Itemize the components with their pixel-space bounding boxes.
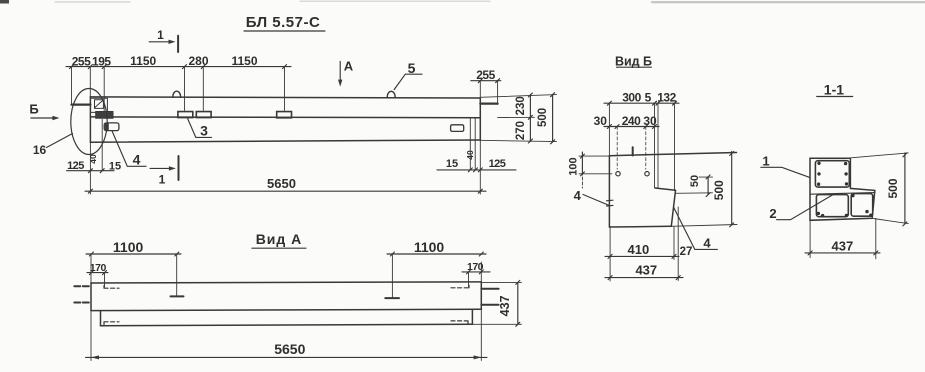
label 5 — [394, 60, 422, 90]
svg-text:30: 30 — [594, 114, 608, 128]
view A rebar ends right — [481, 289, 498, 305]
svg-text:4: 4 — [574, 188, 582, 203]
svg-text:132: 132 — [657, 90, 676, 104]
label 16 — [33, 134, 73, 158]
dim 170 left — [87, 254, 108, 287]
svg-text:500: 500 — [537, 108, 549, 127]
view Б extension lines — [609, 103, 674, 190]
stirrup (bottom right) — [851, 194, 873, 217]
svg-text:500: 500 — [886, 178, 900, 198]
section outline — [810, 158, 875, 220]
embedded plate 3b — [196, 112, 211, 118]
view A anchor left — [171, 254, 184, 296]
title 1-1 — [817, 81, 853, 97]
svg-text:255: 255 — [476, 68, 495, 82]
detail ellipse (node 16) — [71, 89, 107, 155]
bottom-left small dims 125 40 15 — [67, 120, 122, 173]
view Б loop stub — [632, 147, 634, 155]
svg-text:5: 5 — [645, 90, 652, 104]
protruding rebar right — [480, 102, 497, 104]
view Б dims 410 27 — [605, 242, 692, 258]
embedded plate 3a — [178, 112, 193, 118]
svg-text:1: 1 — [762, 153, 769, 168]
closure plate 4 (right end) — [451, 125, 464, 132]
scan edge artifacts top — [0, 0, 925, 4]
svg-text:1: 1 — [157, 28, 164, 42]
dim 100 (view Б) — [567, 152, 612, 176]
svg-text:27: 27 — [680, 246, 693, 258]
svg-text:270: 270 — [515, 121, 527, 140]
dim 255 (top right) — [471, 68, 501, 105]
svg-text:Б: Б — [29, 101, 38, 116]
svg-text:4: 4 — [133, 151, 141, 167]
svg-text:1-1: 1-1 — [824, 81, 844, 97]
svg-text:5650: 5650 — [274, 341, 305, 357]
svg-text:16: 16 — [33, 143, 47, 157]
lifting loop 5 (right) — [387, 91, 395, 97]
svg-text:1100: 1100 — [113, 239, 144, 255]
svg-text:437: 437 — [832, 238, 854, 253]
svg-text:125: 125 — [489, 158, 506, 170]
label 4 (view Б left) — [574, 177, 613, 206]
section dim 500 — [851, 153, 908, 226]
svg-text:40: 40 — [465, 150, 475, 160]
view arrow А — [338, 58, 354, 86]
svg-text:5: 5 — [408, 60, 416, 76]
rebar dots — [817, 162, 873, 218]
svg-text:15: 15 — [446, 158, 458, 170]
beam outline (elevation) — [90, 97, 480, 142]
section mark 1 (bottom) — [150, 156, 179, 186]
svg-text:240: 240 — [622, 114, 641, 128]
svg-text:195: 195 — [92, 55, 111, 69]
view A rebar ends left — [74, 286, 91, 302]
svg-text:255: 255 — [72, 55, 91, 69]
dim 437 (view A) — [472, 280, 521, 326]
svg-text:437: 437 — [635, 263, 657, 278]
svg-text:410: 410 — [628, 242, 650, 257]
dim 5650 (elevation) — [85, 140, 486, 194]
view Б dim line 300 5 132 — [604, 90, 679, 105]
svg-text:230: 230 — [515, 96, 527, 115]
view A anchor right — [385, 254, 399, 298]
svg-text:4: 4 — [703, 235, 711, 250]
label 4 (view Б right) — [674, 208, 717, 250]
view arrow Б — [29, 101, 59, 120]
dim 5650 (view A) — [86, 309, 488, 360]
svg-text:1150: 1150 — [231, 54, 257, 68]
svg-text:А: А — [344, 58, 354, 73]
svg-text:40: 40 — [88, 154, 98, 164]
left end embedded plate (filled) — [96, 112, 113, 119]
lifting loop 5 (left) — [173, 91, 181, 97]
svg-text:Вид Б: Вид Б — [615, 54, 652, 68]
view A shelf outline — [101, 309, 473, 325]
svg-text:15: 15 — [109, 160, 121, 172]
svg-text:3: 3 — [200, 122, 208, 138]
view Б dim line 30 240 30 — [594, 114, 659, 129]
svg-text:БЛ 5.57-С: БЛ 5.57-С — [246, 14, 321, 31]
label 3 — [188, 119, 212, 139]
svg-text:437: 437 — [498, 295, 512, 316]
stirrup (bottom left) — [816, 195, 848, 217]
dim 1100 right — [387, 239, 486, 256]
stirrup (rib) — [815, 161, 849, 187]
section inner line — [811, 193, 876, 195]
svg-text:300: 300 — [622, 90, 641, 104]
svg-text:280: 280 — [188, 54, 208, 68]
section mark 1 (top) — [149, 28, 178, 52]
svg-text:500: 500 — [712, 180, 726, 200]
dim 170 right — [462, 261, 490, 287]
top dimension line 255 195 1150 280 1150 — [66, 54, 291, 69]
label 1 — [761, 153, 810, 177]
title БЛ 5.57-С — [244, 14, 325, 31]
view A hidden plate marks — [104, 285, 469, 325]
right side dims 230 270 500 — [480, 93, 556, 144]
svg-text:1100: 1100 — [414, 239, 445, 255]
svg-text:50: 50 — [689, 175, 701, 187]
view Б face outline — [609, 153, 737, 228]
dim 50 (view Б) — [676, 175, 713, 197]
svg-text:5650: 5650 — [267, 176, 296, 191]
dim 1100 left — [86, 239, 181, 256]
view Б anchor bolts — [616, 172, 649, 176]
closure plate 4 (left) — [104, 123, 119, 131]
view Б dim 437 — [605, 207, 683, 281]
left end corner detail — [91, 98, 107, 118]
section dim 437 — [805, 218, 880, 258]
title Вид Б — [615, 54, 652, 68]
label 4 (left) — [112, 131, 146, 167]
svg-text:100: 100 — [567, 157, 579, 175]
svg-text:170: 170 — [90, 262, 107, 274]
dim 500 (view Б) — [712, 152, 734, 227]
protruding rebar left — [72, 103, 91, 105]
title Вид А — [252, 231, 306, 248]
view A beam outline — [91, 282, 481, 311]
svg-text:Вид А: Вид А — [256, 231, 303, 247]
bottom-right small dims 15 40 125 — [437, 118, 516, 172]
svg-text:1150: 1150 — [130, 54, 156, 68]
svg-text:125: 125 — [67, 160, 84, 172]
svg-text:1: 1 — [159, 172, 166, 186]
embedded plate 3c — [277, 112, 292, 118]
label 2 — [769, 195, 833, 221]
extension lines from top dims — [72, 67, 285, 111]
svg-text:2: 2 — [769, 206, 776, 221]
